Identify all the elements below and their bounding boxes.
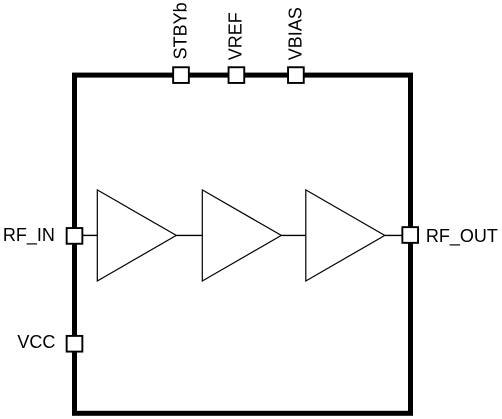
svg-text:VCC: VCC	[17, 332, 55, 352]
svg-text:RF_IN: RF_IN	[3, 225, 55, 246]
svg-text:STBYb: STBYb	[170, 2, 190, 59]
amplifier A1	[97, 190, 176, 281]
wire A1 to A2	[176, 234, 202, 236]
wire A2 to A3	[281, 234, 306, 236]
pin RF_IN	[67, 228, 83, 244]
amplifier A3	[306, 190, 385, 281]
pin VCC	[67, 336, 83, 352]
svg-text:RF_OUT: RF_OUT	[426, 226, 498, 247]
svg-text:VBIAS: VBIAS	[285, 7, 305, 60]
svg-text:VREF: VREF	[226, 12, 246, 60]
amplifier A2	[202, 190, 281, 281]
block outline U1	[75, 75, 411, 413]
pin VREF	[229, 67, 245, 83]
wire RF_IN to A1	[83, 234, 97, 236]
pin STBYb	[173, 67, 189, 83]
wire A3 to RF_OUT	[385, 234, 402, 236]
pin RF_OUT	[402, 227, 418, 243]
pin VBIAS	[288, 67, 304, 83]
